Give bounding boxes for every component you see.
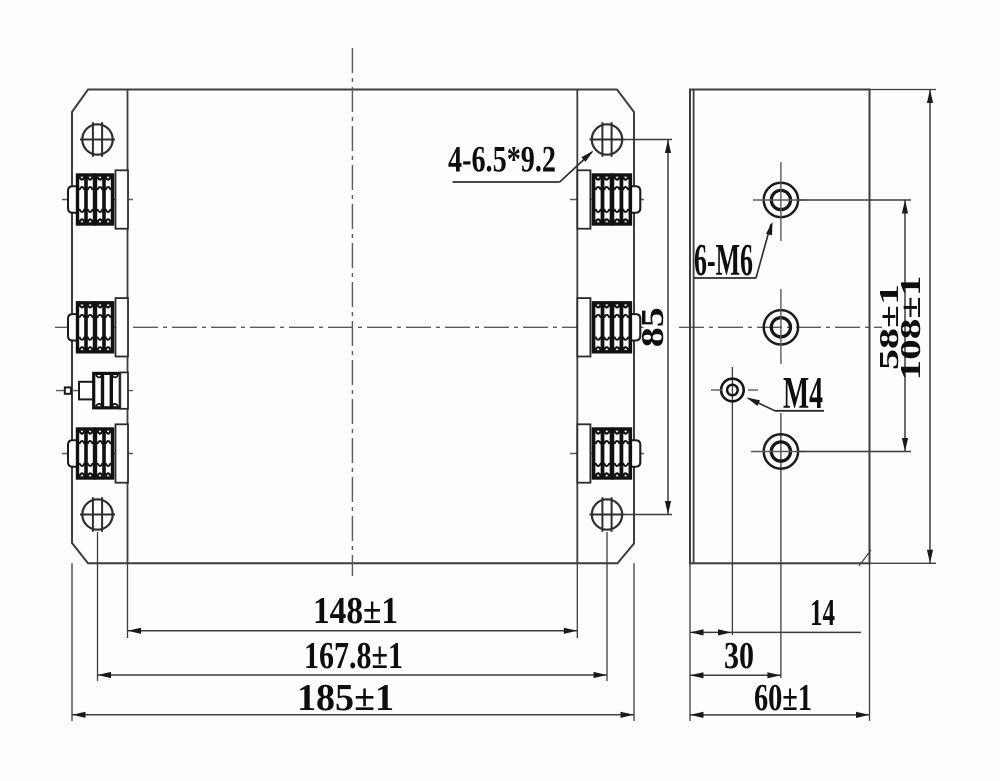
svg-text:30: 30 — [724, 635, 754, 677]
svg-text:148±1: 148±1 — [313, 590, 398, 632]
svg-text:14: 14 — [810, 592, 835, 634]
svg-text:60±1: 60±1 — [754, 677, 812, 719]
svg-text:108±1: 108±1 — [895, 276, 927, 381]
svg-text:4-6.5*9.2: 4-6.5*9.2 — [448, 140, 556, 181]
svg-text:85: 85 — [634, 307, 670, 347]
svg-text:185±1: 185±1 — [297, 677, 394, 719]
svg-text:167.8±1: 167.8±1 — [304, 635, 403, 677]
